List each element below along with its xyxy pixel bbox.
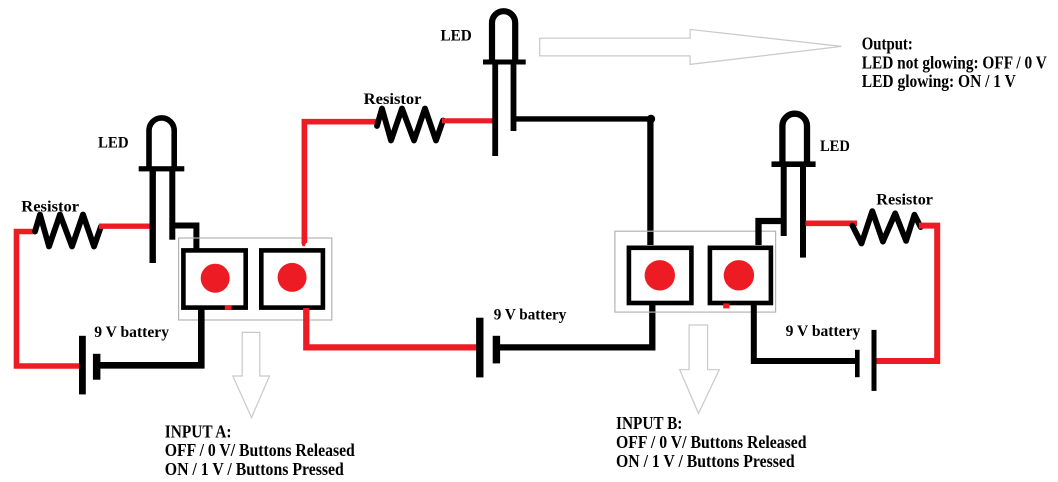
svg-text:9 V battery: 9 V battery	[494, 306, 567, 323]
push button S4	[710, 248, 771, 303]
wire: LED D2 cathode right to node	[514, 116, 652, 121]
wire red: left battery positive loop up to resistor R1	[17, 232, 80, 367]
svg-text:OFF / 0 V/ Buttons Released: OFF / 0 V/ Buttons Released	[616, 432, 807, 452]
battery B3 long plate	[872, 330, 877, 391]
wire red: resistor R1 to LED D1 anode	[99, 223, 155, 228]
svg-text:Resistor: Resistor	[364, 91, 422, 108]
svg-text:Output:: Output:	[862, 34, 913, 54]
LED D3 cathode lead	[800, 167, 806, 258]
LED D1 dome	[149, 118, 174, 167]
svg-text:LED not glowing: OFF / 0 V: LED not glowing: OFF / 0 V	[862, 53, 1047, 73]
wire red: resistor R2 to LED D2 anode	[442, 118, 498, 123]
LED D2 cathode lead	[511, 65, 517, 132]
LED D2 flange	[483, 60, 526, 65]
wire red: button S2 top up and right to resistor R2	[304, 122, 379, 243]
svg-text:ON / 1 V / Buttons Pressed: ON / 1 V / Buttons Pressed	[165, 459, 344, 479]
svg-text:INPUT A:: INPUT A:	[165, 421, 232, 441]
wire: battery B3 negative to button S4 bottom	[754, 305, 855, 361]
LED D3 dome	[782, 114, 807, 162]
svg-text:Resistor: Resistor	[876, 192, 933, 209]
button S2 red cap	[278, 263, 307, 292]
LED D3 flange	[772, 161, 816, 167]
svg-text:ON / 1 V / Buttons Pressed: ON / 1 V / Buttons Pressed	[616, 451, 795, 471]
svg-text:LED: LED	[820, 138, 850, 155]
battery B2 long plate	[476, 318, 483, 378]
svg-text:LED: LED	[98, 135, 129, 152]
arrow output (right)	[540, 29, 842, 64]
LED D2 dome	[492, 11, 515, 60]
wire: battery B2 negative to button S3 bottom	[500, 305, 652, 347]
wire: button S1 bottom to battery B1 negative	[97, 308, 202, 365]
wire red: resistor R3 down to battery B3 positive	[877, 226, 938, 361]
resistor R2	[377, 109, 443, 141]
red mark at S4 bottom edge	[723, 303, 729, 308]
battery B1 long plate	[79, 336, 86, 395]
LED D3 anode lead	[781, 167, 787, 236]
battery B1 short plate	[93, 354, 101, 380]
wire red: LED D3 cathode to resistor R3	[806, 221, 858, 227]
LED D1 flange	[139, 166, 185, 171]
red wire tip inside S2 top	[301, 243, 306, 247]
wire: node down to button S3 top	[647, 119, 653, 245]
LED D2 anode lead	[492, 65, 498, 157]
push button S1	[183, 250, 245, 307]
battery B3 short plate	[855, 350, 860, 377]
button S1 red cap	[201, 264, 230, 293]
wire: LED D1 cathode to button S1 top	[172, 226, 196, 250]
arrow input B (down)	[680, 325, 720, 413]
red mark at S1 bottom edge	[225, 305, 232, 310]
wire: button S4 top to LED D3 anode	[759, 221, 786, 245]
LED D1 anode lead	[150, 171, 156, 263]
button S4 red cap	[724, 260, 754, 290]
svg-text:LED glowing: ON / 1 V: LED glowing: ON / 1 V	[862, 71, 1016, 91]
resistor R1	[35, 215, 101, 247]
group box input A buttons	[179, 238, 332, 320]
push button S3	[629, 248, 692, 303]
battery B2 short plate	[493, 336, 500, 364]
svg-text:9 V battery: 9 V battery	[786, 323, 861, 340]
arrow input A (down)	[233, 332, 270, 417]
wire red: middle loop through button S2 down to battery B2 positive	[306, 308, 476, 347]
svg-text:9 V battery: 9 V battery	[94, 324, 169, 341]
svg-text:OFF / 0 V/ Buttons Released: OFF / 0 V/ Buttons Released	[165, 440, 355, 460]
button S3 red cap	[645, 260, 675, 290]
svg-text:LED: LED	[441, 28, 472, 45]
svg-text:INPUT B:: INPUT B:	[616, 413, 682, 433]
svg-text:Resistor: Resistor	[21, 199, 79, 216]
push button S2	[261, 250, 323, 307]
LED D1 cathode lead	[169, 171, 175, 240]
resistor R3	[852, 211, 920, 243]
group box input B buttons	[615, 231, 776, 312]
node junction dot	[647, 115, 655, 123]
